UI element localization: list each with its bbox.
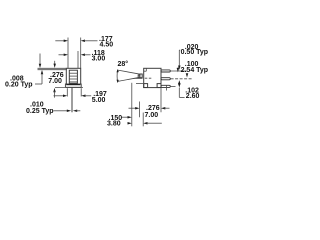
svg-text:4.50: 4.50 (100, 41, 114, 48)
svg-text:3.80: 3.80 (107, 121, 121, 128)
svg-text:7.00: 7.00 (145, 112, 159, 119)
svg-text:.276: .276 (146, 105, 160, 112)
svg-text:0.50 Typ: 0.50 Typ (181, 49, 209, 56)
svg-text:28°: 28° (118, 60, 129, 68)
svg-text:0.25 Typ: 0.25 Typ (26, 108, 54, 115)
svg-text:7.00: 7.00 (48, 78, 62, 85)
svg-text:3.00: 3.00 (92, 55, 106, 62)
svg-text:2.60: 2.60 (186, 93, 200, 100)
svg-text:5.00: 5.00 (92, 97, 106, 104)
svg-text:0.20 Typ: 0.20 Typ (5, 82, 33, 89)
svg-text:2.54 Typ: 2.54 Typ (181, 67, 209, 74)
